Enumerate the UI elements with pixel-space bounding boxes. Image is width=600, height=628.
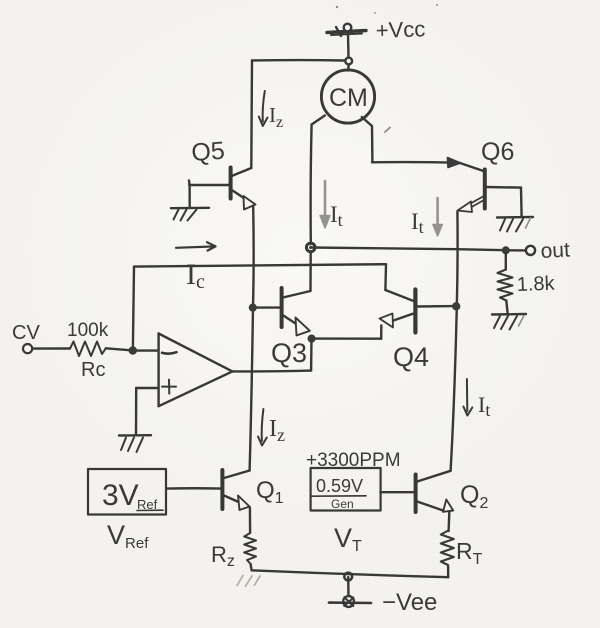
- svg-text:Rc: Rc: [81, 359, 105, 381]
- svg-text:Iz: Iz: [269, 103, 283, 131]
- svg-text:Q5: Q5: [190, 137, 225, 167]
- svg-text:It: It: [411, 209, 424, 237]
- svg-text:CM: CM: [329, 84, 368, 112]
- svg-text:Iz: Iz: [269, 416, 285, 445]
- svg-text:−Vee: −Vee: [382, 589, 437, 616]
- svg-text:Q1: Q1: [256, 477, 284, 507]
- svg-text:VT: VT: [334, 523, 362, 555]
- svg-text:Ref: Ref: [137, 497, 158, 512]
- svg-text:+3300PPM: +3300PPM: [306, 450, 401, 471]
- svg-text:Q3: Q3: [271, 338, 307, 368]
- svg-text:Gen: Gen: [331, 497, 354, 511]
- svg-text:+Vcc: +Vcc: [375, 16, 425, 43]
- svg-text:100k: 100k: [67, 320, 109, 341]
- svg-text:0.59V: 0.59V: [316, 476, 363, 496]
- svg-text:CV: CV: [12, 322, 40, 344]
- svg-text:It: It: [478, 392, 490, 420]
- svg-text:Q6: Q6: [481, 138, 514, 166]
- svg-text:out: out: [540, 238, 571, 263]
- svg-text:Rz: Rz: [211, 542, 235, 570]
- svg-text:It: It: [330, 202, 343, 230]
- svg-text:Q4: Q4: [393, 342, 429, 372]
- svg-text:Q2: Q2: [460, 481, 488, 512]
- svg-text:1.8k: 1.8k: [516, 273, 556, 296]
- svg-text:RT: RT: [456, 538, 483, 568]
- svg-text:VRef: VRef: [107, 520, 149, 552]
- svg-text:3V: 3V: [102, 479, 139, 512]
- svg-text:Ic: Ic: [186, 258, 205, 293]
